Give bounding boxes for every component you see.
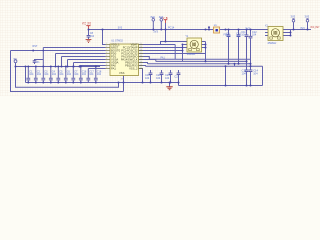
junction C7 bot	[72, 82, 74, 84]
capacitor C5 plates	[56, 78, 60, 80]
capacitor C20 stem	[161, 70, 163, 83]
junction crystal left y47.5	[182, 47, 184, 49]
svg-text:3V3: 3V3	[305, 15, 310, 19]
svg-text:25MHz: 25MHz	[268, 41, 277, 45]
junction x205 rail	[205, 29, 207, 31]
junction C3 top	[42, 66, 44, 68]
wire x102 drop	[103, 30, 106, 45]
junction elbow x73.5	[73, 66, 75, 68]
svg-text:104: 104	[89, 73, 94, 76]
capacitor C5 stem	[57, 67, 59, 83]
svg-text:104: 104	[165, 77, 170, 80]
svg-text:104: 104	[226, 35, 231, 38]
svg-text:104: 104	[156, 77, 161, 80]
junction C18 bot	[95, 82, 97, 84]
capacitor C1 stem	[27, 67, 29, 83]
junction C10 bottom	[238, 63, 240, 65]
junction flag D	[293, 29, 295, 31]
wire x25 link	[25, 67, 27, 83]
junction bead upper	[208, 26, 210, 28]
net flag circle C	[160, 19, 163, 22]
wire pin row y68.5 drop	[87, 69, 89, 83]
capacitor C14 plates	[249, 70, 253, 72]
junction x165 top	[165, 29, 167, 31]
junction x43 cross	[42, 50, 44, 52]
wire pin row y56.5	[62, 56, 106, 58]
wire pin PA y47.5	[43, 47, 105, 49]
junction C12 bot	[250, 63, 252, 65]
wire IC bottom pin	[123, 76, 125, 92]
capacitor C18 plates	[94, 78, 98, 80]
junction flag A	[15, 66, 17, 68]
wire row y65.5	[139, 65, 146, 68]
oscillator X2	[268, 27, 283, 41]
wire cap C21 column	[178, 70, 180, 86]
capacitor C19 plates	[149, 73, 153, 75]
junction elbow x67.5	[67, 66, 69, 68]
wire crystal left stubs	[184, 42, 188, 48]
capacitor C16 stem	[80, 67, 82, 83]
wire elbow x55.5	[55, 54, 57, 67]
junction C4 bot	[50, 82, 52, 84]
wire gnd rail y85.5	[179, 85, 263, 87]
capacitor C14 stub	[250, 66, 252, 85]
junction C1 bot	[27, 82, 29, 84]
junction elbow x79.5	[79, 66, 81, 68]
wire pin row y59.5	[68, 59, 106, 61]
junction x102	[102, 29, 104, 31]
svg-text:3V3: 3V3	[150, 16, 155, 19]
svg-text:104: 104	[52, 73, 57, 76]
wire link x175	[174, 45, 176, 60]
capacitor C18 stem	[95, 67, 97, 83]
wire gnd stem	[169, 83, 171, 87]
capacitor C7 plates	[71, 78, 75, 80]
svg-text:PC14: PC14	[168, 27, 175, 30]
wire crystal left bus	[182, 45, 184, 62]
junction y66.3 x225	[225, 65, 227, 67]
svg-text:C21: C21	[174, 75, 179, 78]
wire row y59.5	[139, 60, 156, 62]
wire drop x234	[234, 64, 236, 67]
wire osc left stubs	[265, 30, 268, 36]
capacitor C10 plates	[237, 35, 241, 37]
wire bead left	[206, 29, 214, 31]
junction C1 top	[27, 66, 29, 68]
junction C12 top	[250, 29, 252, 31]
wire pin row y53.5	[56, 53, 106, 55]
svg-text:VCC_3V3: VCC_3V3	[82, 21, 91, 25]
junction C12 jog	[250, 65, 252, 67]
capacitor C3 plates	[41, 78, 45, 80]
crystal Y1	[187, 38, 202, 52]
ground	[166, 87, 172, 90]
capacitor C17 plates	[86, 78, 90, 80]
wire elbow x262	[262, 66, 264, 85]
wire bead upper link	[208, 27, 210, 29]
junction y50.5 x33.2	[32, 50, 34, 52]
wire 3V3 rail	[89, 29, 269, 31]
wire bead right	[220, 29, 226, 31]
wire cap bottom rail	[26, 82, 180, 84]
net flag circle B	[152, 19, 155, 22]
wire flag A stem	[15, 63, 17, 67]
junction C6 top	[65, 66, 67, 68]
wire row y68.5 right	[139, 69, 143, 83]
capacitor C21 plates	[177, 73, 181, 75]
wire crystal right pins	[202, 42, 206, 48]
capacitor C3 stem	[42, 67, 44, 83]
capacitor C1 plates	[26, 78, 30, 80]
wire crystal right bus	[205, 42, 207, 62]
junction C19	[150, 82, 152, 84]
wire elbow x73.5	[73, 63, 75, 67]
junction crystal bus y44.5	[205, 44, 207, 46]
wire row y44.5 ext	[161, 44, 176, 46]
capacitor C13 plates	[245, 70, 249, 72]
power port at x165	[164, 20, 168, 23]
net flag circle A	[14, 60, 17, 63]
wire pin row y68.5	[88, 68, 105, 70]
svg-text:3V3: 3V3	[300, 27, 305, 30]
svg-text:104: 104	[90, 35, 95, 38]
wire osc bus x290	[290, 30, 292, 36]
wire left bus elbow 1	[11, 51, 124, 92]
capacitor C20 plates	[160, 73, 164, 75]
capacitor C9 column	[228, 30, 230, 64]
capacitor C23 plates	[169, 73, 173, 75]
wire elbow x61.5	[61, 57, 63, 67]
wire elbow x43.3	[42, 48, 44, 67]
net flag circle D	[292, 19, 295, 22]
capacitor C19 stem	[150, 70, 152, 83]
svg-text:3V3: 3V3	[291, 15, 296, 19]
wire row y62.5	[139, 63, 148, 64]
junction IC gnd drop	[123, 82, 125, 84]
junction C4 top	[50, 66, 52, 68]
capacitor C2 stem	[35, 67, 37, 83]
junction C2 top	[35, 66, 37, 68]
junction C5 top	[57, 66, 59, 68]
junction gnd rail	[169, 82, 171, 84]
capacitor C12 plates	[249, 36, 253, 38]
junction C16 top	[80, 66, 82, 68]
junction C5 bot	[57, 82, 59, 84]
capacitor C4 stem	[50, 67, 52, 83]
capacitor C11 column	[246, 30, 248, 86]
junction C11 top	[246, 29, 248, 31]
junction C20	[161, 82, 163, 84]
svg-text:16MHz: 16MHz	[187, 52, 196, 56]
wire flag B stem	[152, 21, 154, 29]
junction C23	[170, 82, 172, 84]
capacitor C6 plates	[64, 78, 68, 80]
wire rail y66.3	[146, 65, 263, 67]
junction flag C	[160, 29, 162, 31]
wire C22 stub	[34, 63, 36, 65]
wire pin row y65.5	[80, 65, 106, 67]
op-amp U1 body	[110, 44, 139, 76]
capacitor C16 plates	[79, 78, 83, 80]
wire pin PB y50.5	[11, 50, 106, 52]
wire row y53.5	[139, 53, 206, 55]
junction C18 top	[95, 66, 97, 68]
junction osc bus y35.5	[290, 35, 292, 37]
wire drop x225	[225, 66, 227, 85]
junction crystal bus y61.4	[205, 60, 207, 62]
wire jog x43.3	[35, 60, 44, 61]
svg-text:104: 104	[242, 71, 247, 75]
junction elbow x55.5	[55, 66, 57, 68]
junction elbow x61.5	[61, 66, 63, 68]
svg-text:PA1: PA1	[161, 57, 166, 60]
wire left gnd path	[16, 67, 119, 88]
junction C9 top	[228, 29, 230, 31]
wire x165 drop	[165, 23, 167, 42]
svg-text:104: 104	[74, 73, 79, 76]
svg-text:104: 104	[145, 77, 150, 80]
svg-text:VCC_PHY: VCC_PHY	[310, 25, 319, 29]
wire rail y61.4	[156, 60, 247, 62]
svg-text:104: 104	[97, 73, 102, 76]
wire rail y59.2	[149, 58, 250, 60]
junction crystal left y50.5	[182, 50, 184, 52]
junction bead lower	[208, 29, 210, 31]
wire row y50.5	[139, 50, 183, 52]
wire flag D stem	[293, 22, 295, 29]
wire right flag rail	[291, 29, 312, 31]
junction C6 bot	[65, 82, 67, 84]
wire rail y63.8	[148, 63, 251, 65]
capacitor C22 plates	[33, 61, 37, 63]
svg-text:U1 STM32: U1 STM32	[111, 39, 123, 43]
svg-text:104: 104	[241, 34, 246, 37]
junction x178 rail	[178, 82, 180, 84]
junction crystal left y44.5	[182, 44, 184, 46]
junction flag E	[307, 29, 309, 31]
capacitor C11 plates	[245, 35, 249, 37]
junction C9 bottom	[228, 63, 230, 65]
junction x225	[225, 29, 227, 31]
junction y63.8 x234	[234, 63, 236, 65]
wire row y56.5	[139, 57, 149, 60]
capacitor C4 plates	[49, 78, 53, 80]
junction y85.5 x225	[225, 85, 227, 87]
junction C11 mid	[246, 60, 248, 62]
wire OSC_OUT	[139, 47, 183, 49]
junction C2 bot	[35, 82, 37, 84]
junction x118 rail	[118, 82, 120, 84]
svg-text:104: 104	[67, 73, 72, 76]
capacitor C7 stem	[72, 67, 74, 83]
junction C10 top	[238, 29, 240, 31]
junction osc bus y32.5	[290, 32, 292, 34]
wire pin row y62.5	[74, 62, 106, 64]
capacitor C2 plates	[34, 78, 38, 80]
svg-text:104: 104	[82, 73, 87, 76]
junction x88	[88, 29, 90, 31]
wire flag E stem	[307, 22, 309, 29]
junction crystal bus y47.5	[205, 47, 207, 49]
junction C14 bot	[250, 85, 252, 87]
ground at C8	[86, 39, 92, 42]
junction x142 rail	[142, 82, 144, 84]
ferrite bead L1	[214, 27, 220, 33]
svg-text:3V3: 3V3	[153, 30, 158, 34]
junction x25 top	[25, 66, 27, 68]
svg-text:3V3: 3V3	[245, 26, 250, 30]
svg-text:VB: VB	[163, 16, 168, 20]
junction C3 bot	[42, 82, 44, 84]
capacitor C9 plates	[227, 35, 231, 37]
capacitor C23 stem	[170, 70, 172, 83]
wire cap-row top rail	[16, 66, 101, 68]
wire osc right pins	[283, 30, 291, 36]
junction x165 bot	[165, 41, 167, 43]
svg-text:3V3: 3V3	[118, 27, 123, 30]
junction C11 bot	[246, 85, 248, 87]
svg-text:RST: RST	[33, 45, 38, 48]
net flag circle E	[306, 19, 309, 22]
junction flag B	[152, 29, 154, 31]
capacitor C10 column	[238, 30, 240, 64]
wire elbow x67.5	[67, 60, 69, 67]
junction C16 bot	[80, 82, 82, 84]
svg-text:VSS_2: VSS_2	[129, 67, 138, 71]
power port VCC_3V3	[87, 26, 91, 29]
svg-text:104: 104	[29, 73, 34, 76]
wire OSC_IN	[139, 42, 187, 45]
svg-text:VSS: VSS	[119, 71, 125, 75]
capacitor C12 column	[250, 30, 252, 67]
wire flag C stem	[160, 21, 162, 29]
svg-text:104: 104	[59, 73, 64, 76]
capacitor C8 plates	[87, 36, 91, 38]
junction C7 top	[72, 66, 74, 68]
wire elbow x79.5	[79, 66, 81, 67]
svg-text:104: 104	[37, 73, 42, 76]
svg-text:PA1: PA1	[111, 67, 116, 71]
capacitor C6 stem	[65, 67, 67, 83]
capacitor C8 stem	[88, 30, 90, 40]
svg-text:104: 104	[253, 71, 258, 75]
svg-text:104: 104	[252, 34, 257, 37]
svg-text:G: G	[13, 59, 15, 61]
svg-text:104: 104	[44, 73, 49, 76]
